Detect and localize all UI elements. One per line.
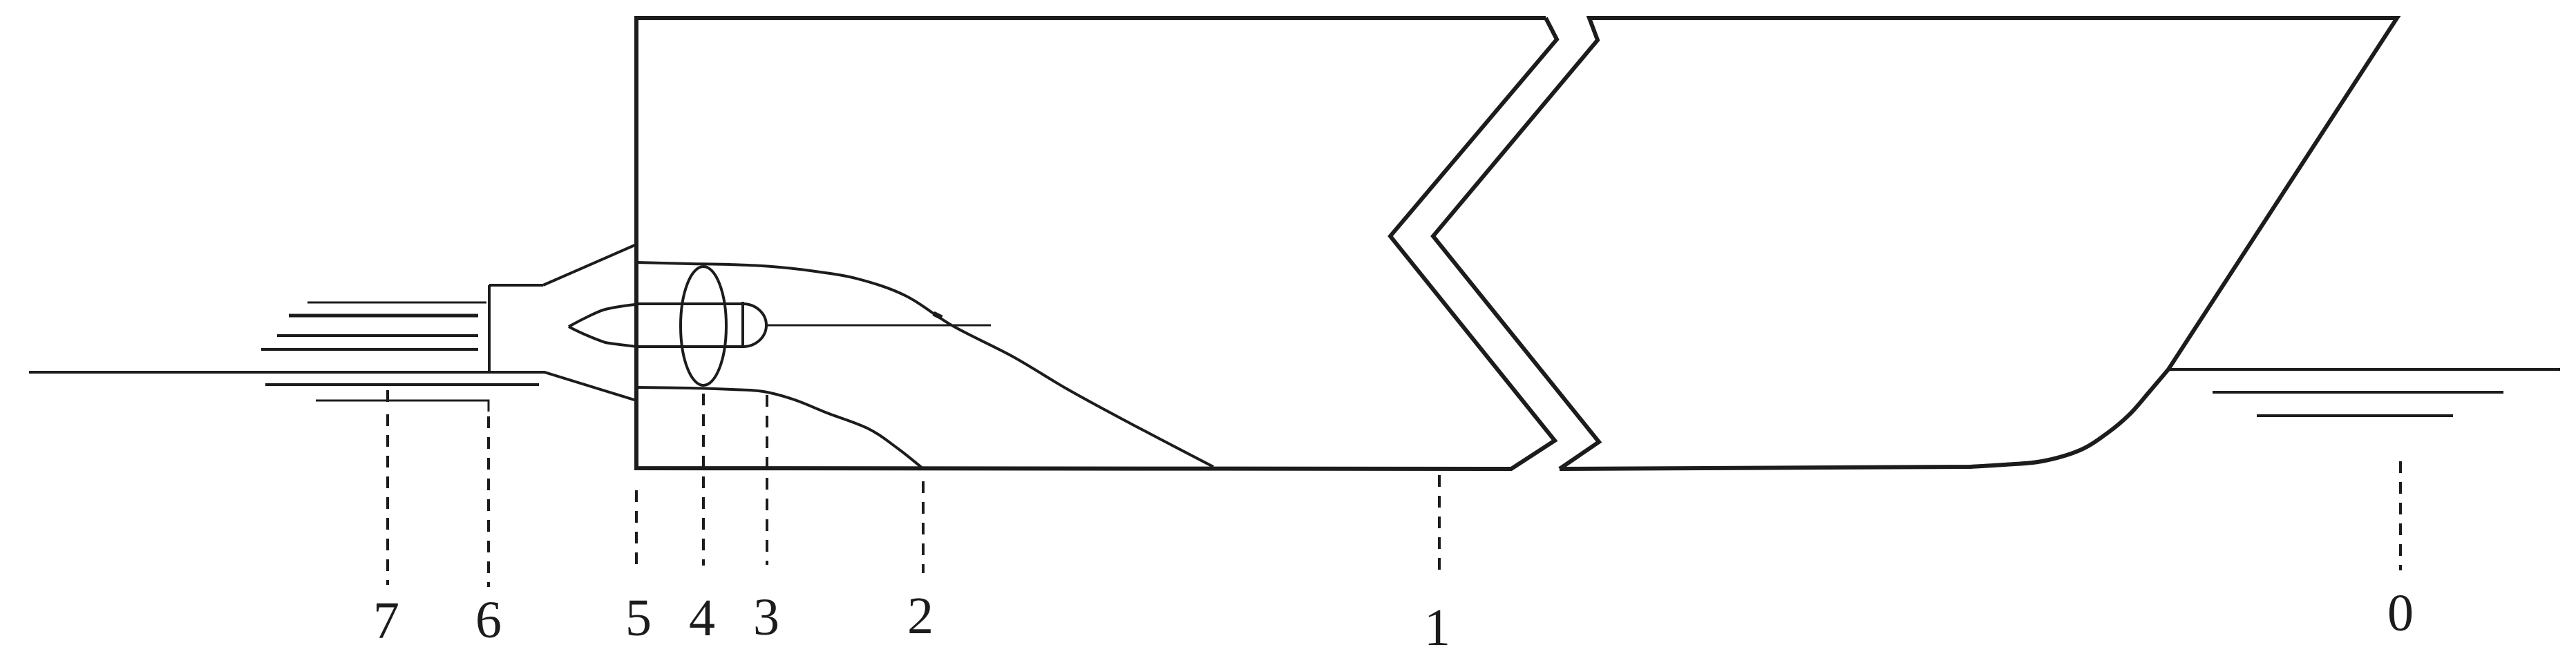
station 3 dashed line	[766, 395, 768, 565]
free surface waterline aft	[29, 371, 545, 374]
impeller disc ellipse	[681, 267, 726, 385]
hull fore section outline (deck, break, keel, forefoot, stem)	[1433, 18, 2397, 469]
station 2 dashed line	[922, 481, 925, 573]
station 4 dashed line	[702, 394, 705, 566]
jet streamline 1	[307, 302, 486, 304]
svg-text:6: 6	[475, 591, 502, 649]
station 0 dashed line	[2399, 461, 2402, 570]
hull aft section outline (transom, deck, break, keel)	[636, 18, 1557, 469]
svg-text:2: 2	[907, 587, 934, 645]
svg-text:0: 0	[2387, 584, 2414, 642]
wake line with corner at station 6	[316, 401, 489, 412]
station 5 dashed line	[635, 490, 638, 565]
nozzle lower converging line	[544, 372, 636, 401]
nozzle outlet left edge	[488, 285, 491, 372]
pump hub body top line	[636, 302, 743, 305]
nose cone upper profile	[569, 305, 636, 327]
svg-text:7: 7	[373, 592, 399, 650]
tick on ramp curve	[934, 313, 942, 318]
svg-text:3: 3	[753, 588, 779, 646]
station 7 dashed line	[386, 390, 389, 585]
inlet duct lower lip curve	[636, 387, 922, 468]
nose cone lower profile	[569, 327, 636, 347]
jet streamline 3	[277, 334, 478, 337]
shaft line	[766, 325, 991, 327]
inlet duct upper ramp curve	[636, 262, 1213, 467]
wave line fore 2	[2257, 414, 2453, 417]
station 6 dashed line	[487, 416, 490, 587]
pump hub divider line	[741, 302, 744, 348]
pump hub rounded end cap	[743, 304, 766, 347]
free surface waterline fore	[2168, 368, 2560, 371]
svg-text:5: 5	[625, 589, 652, 647]
svg-text:4: 4	[689, 589, 715, 647]
station 1 dashed line	[1438, 475, 1441, 579]
svg-text:1: 1	[1424, 599, 1450, 656]
wave line fore 1	[2213, 391, 2503, 394]
jet streamline 4	[261, 348, 478, 351]
nozzle outlet top edge	[489, 284, 543, 287]
nozzle upper converging line	[543, 244, 636, 285]
jet streamline 2	[289, 314, 478, 318]
pump hub body bottom line	[636, 345, 743, 348]
wake line below surface aft	[265, 383, 539, 386]
